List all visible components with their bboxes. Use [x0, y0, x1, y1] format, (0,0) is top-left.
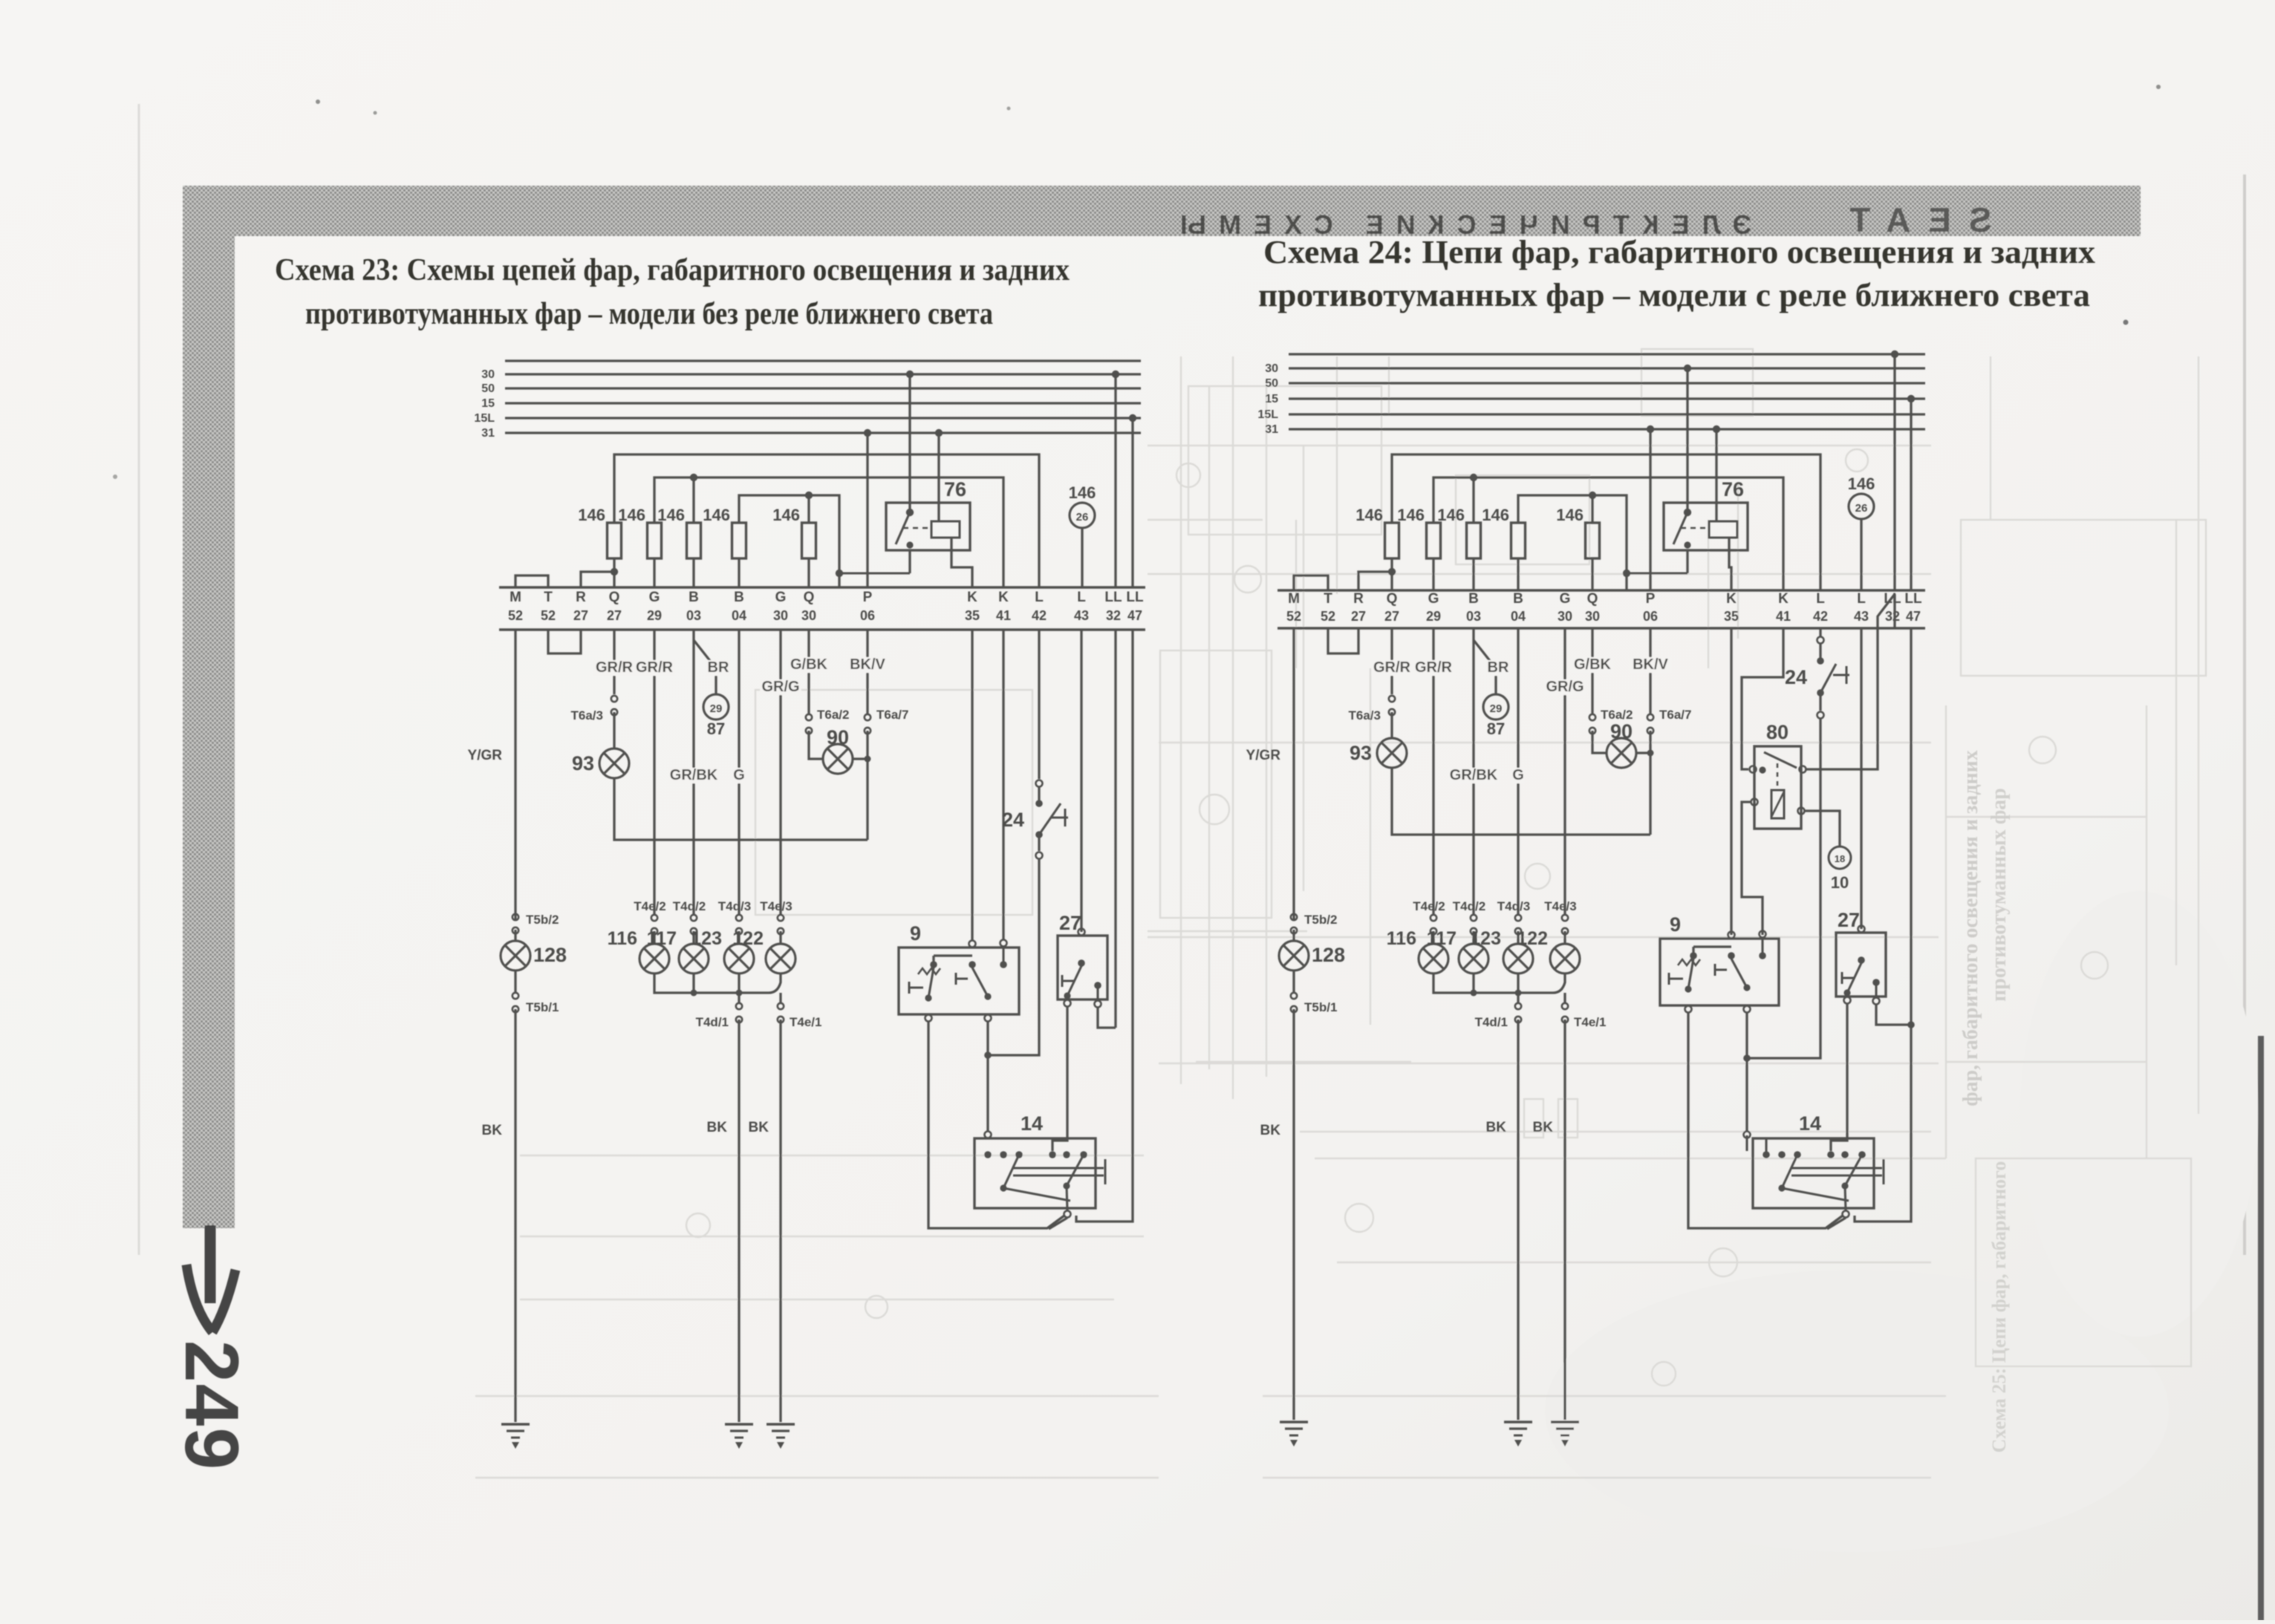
switch 24 — [1002, 780, 1068, 859]
lamp 93 — [572, 749, 629, 778]
svg-text:Схема 25: Цепи фар, габаритног: Схема 25: Цепи фар, габаритного — [1988, 1161, 2010, 1453]
svg-text:K: K — [998, 590, 1009, 605]
svg-text:123: 123 — [1470, 928, 1501, 949]
jumper R-Q — [1358, 568, 1396, 590]
svg-text:Q: Q — [1587, 591, 1598, 607]
wire GR/R (Q27) — [593, 630, 635, 694]
svg-text:T5b/2: T5b/2 — [1304, 913, 1337, 927]
wire G/BK (Q30) right — [1572, 628, 1613, 714]
connector T5b/1 — [512, 971, 559, 1014]
svg-text:GR/R: GR/R — [636, 659, 674, 676]
bus 30 — [481, 368, 1141, 381]
wire LL47 to bus — [1907, 395, 1915, 590]
svg-text:T4e/3: T4e/3 — [760, 899, 792, 913]
fuse 146 #2 — [1397, 506, 1440, 590]
svg-text:BR: BR — [708, 659, 729, 676]
lamp 128 — [501, 941, 567, 971]
connector T6a/2 right — [1589, 708, 1633, 753]
svg-text:K: K — [1778, 591, 1789, 607]
svg-text:146: 146 — [1355, 506, 1383, 524]
svg-text:146: 146 — [1437, 506, 1465, 524]
svg-text:T6a/2: T6a/2 — [817, 708, 849, 722]
ground (123 circuit) — [725, 1424, 753, 1449]
svg-text:35: 35 — [965, 608, 980, 623]
svg-text:18: 18 — [1835, 853, 1845, 864]
wire relay switched contact to bus 30 — [1684, 365, 1691, 512]
svg-text:42: 42 — [1813, 609, 1828, 624]
svg-text:B: B — [689, 590, 699, 605]
jumper R-Q — [581, 568, 618, 587]
switch 27 — [1058, 912, 1107, 1008]
svg-text:Схема 24: Цепи фар, габаритног: Схема 24: Цепи фар, габаритного освещени… — [1263, 234, 2095, 270]
svg-text:27: 27 — [573, 608, 588, 623]
wire G (B04) right — [1511, 628, 1525, 914]
wire unit 9 right out right — [1743, 1013, 1769, 1132]
lamp 116 right — [1387, 928, 1448, 974]
svg-text:BK/V: BK/V — [850, 656, 885, 673]
bus 15 — [1265, 393, 1925, 405]
svg-text:52: 52 — [541, 608, 556, 623]
wire L43 to switch 27 — [1080, 630, 1082, 932]
svg-text:G/BK: G/BK — [790, 656, 828, 673]
svg-text:T4d/1: T4d/1 — [696, 1015, 729, 1029]
svg-text:BK: BK — [1486, 1120, 1507, 1135]
svg-text:93: 93 — [1350, 742, 1372, 764]
wire GR/G (G30) — [760, 630, 801, 914]
svg-text:LL: LL — [1904, 591, 1922, 607]
svg-text:L: L — [1857, 591, 1866, 607]
wire GR/R (G29) — [634, 630, 675, 914]
wire lamp return bus right — [1433, 974, 1565, 997]
bus 15L — [474, 412, 1141, 425]
wire relay switched contact to bus 30 — [906, 371, 914, 512]
jumper T-R below bar — [1328, 628, 1358, 653]
wire relay coil feed from bus 31 — [1713, 425, 1720, 521]
fuse 146 #1 — [578, 506, 621, 587]
wire BK to ground (123) right — [1486, 1020, 1518, 1420]
connector T6a/2 — [806, 708, 850, 759]
svg-text:M: M — [510, 590, 521, 605]
jumper M-T — [515, 575, 548, 587]
fuse 146 #3 — [657, 506, 700, 587]
wire lamp 93 return right — [1392, 768, 1650, 835]
svg-text:L: L — [1035, 590, 1044, 605]
ground (122 circuit) — [767, 1424, 795, 1449]
svg-text:128: 128 — [1312, 944, 1345, 966]
svg-text:Q: Q — [804, 590, 815, 605]
svg-text:Q: Q — [609, 590, 620, 605]
svg-text:G: G — [1560, 591, 1571, 607]
svg-text:249: 249 — [169, 1340, 254, 1471]
wire fuse1 to L42 feed — [1392, 454, 1820, 590]
svg-text:04: 04 — [1511, 609, 1526, 624]
svg-text:15L: 15L — [474, 412, 495, 425]
svg-text:14: 14 — [1021, 1112, 1043, 1135]
lamp 90 — [823, 726, 853, 774]
svg-text:116: 116 — [608, 928, 637, 949]
svg-text:фар, габаритного освещения и з: фар, габаритного освещения и задних — [1959, 750, 1982, 1106]
wire relay 80 contact to LL32 — [1805, 594, 1895, 769]
svg-text:32: 32 — [1106, 608, 1121, 623]
wire K41 to switch unit 9 — [1002, 630, 1004, 939]
wire BK to ground (122) — [749, 1020, 781, 1422]
svg-text:146: 146 — [1556, 506, 1584, 524]
ground (122) right — [1551, 1422, 1579, 1447]
bus 31 — [1265, 423, 1925, 436]
svg-text:43: 43 — [1854, 609, 1869, 624]
connector T6a/7 — [853, 708, 908, 840]
lamp 116 — [608, 928, 669, 974]
connector T5b/2 right — [1291, 913, 1338, 941]
svg-text:B: B — [734, 590, 744, 605]
svg-text:26: 26 — [1076, 511, 1089, 524]
svg-text:M: M — [1288, 591, 1300, 607]
svg-text:06: 06 — [1643, 609, 1658, 624]
fuse 146 #2 — [618, 506, 661, 587]
bus 50 — [481, 382, 1141, 395]
wire switch 27 left out — [1052, 1007, 1067, 1151]
svg-text:T: T — [544, 590, 553, 605]
switch unit 9 — [899, 922, 1019, 1022]
bus feed — [505, 359, 1141, 362]
connector T4d/2 — [673, 899, 706, 934]
svg-text:BK: BK — [749, 1120, 769, 1135]
svg-text:31: 31 — [1265, 423, 1278, 436]
svg-text:B: B — [1513, 591, 1523, 607]
bus 15 — [481, 397, 1141, 410]
wire G/BK (Q30) — [788, 630, 830, 714]
svg-text:76: 76 — [944, 478, 966, 500]
svg-text:90: 90 — [1610, 720, 1633, 743]
svg-text:43: 43 — [1074, 608, 1089, 623]
indicator 146 (26) on L43 — [1069, 483, 1096, 587]
indicator 146 (26) on L43 — [1848, 475, 1875, 590]
svg-text:146: 146 — [618, 506, 645, 524]
svg-text:41: 41 — [1776, 609, 1791, 624]
svg-text:Схема 23: Схемы цепей фар, габ: Схема 23: Схемы цепей фар, габаритного о… — [275, 253, 1070, 287]
svg-text:P: P — [1646, 591, 1656, 607]
wire L43 to switch 27 right — [1860, 628, 1862, 929]
svg-text:GR/R: GR/R — [596, 659, 634, 676]
wire fuse2/fuse3 to K41 feed — [654, 474, 1003, 587]
wire BK to ground (122) right — [1533, 1020, 1565, 1420]
svg-text:35: 35 — [1724, 609, 1739, 624]
svg-text:146: 146 — [1848, 475, 1875, 493]
connector T5b/2 — [512, 913, 559, 941]
lamp 117 right — [1427, 928, 1488, 974]
svg-text:K: K — [967, 590, 977, 605]
wire LL47 down right — [1855, 628, 1915, 1222]
svg-text:T5b/2: T5b/2 — [526, 913, 559, 927]
ground (M circuit) — [501, 1424, 530, 1449]
wire lamp return bus — [654, 974, 781, 997]
wire LL32 to bus — [1112, 371, 1119, 587]
svg-text:9: 9 — [1670, 913, 1681, 936]
fuse 146 #5 — [772, 506, 816, 587]
svg-text:06: 06 — [860, 608, 875, 623]
svg-text:T6a/3: T6a/3 — [571, 708, 603, 723]
switch 27 right — [1836, 909, 1886, 1005]
ghost mirrored header text — [1168, 209, 1751, 240]
svg-text:BK: BK — [707, 1120, 728, 1135]
wire switch 27 right out to LL47 — [1876, 1005, 1911, 1025]
wire BK/V (P06) right — [1630, 628, 1671, 714]
wire K35 to switch unit 9 — [971, 630, 973, 941]
svg-text:GR/G: GR/G — [1546, 679, 1584, 695]
wire switch 27 right out to LL32 — [1098, 1008, 1116, 1028]
svg-text:29: 29 — [1490, 702, 1503, 715]
connector T4e/1 — [778, 993, 822, 1029]
wire K35 to switch unit 9 right — [1730, 628, 1732, 935]
wire LL47 down — [1076, 630, 1133, 1222]
svg-text:146: 146 — [1397, 506, 1425, 524]
svg-text:146: 146 — [1482, 506, 1509, 524]
svg-text:116: 116 — [1387, 928, 1416, 949]
ground (123) right — [1504, 1422, 1532, 1447]
wire LL47 to bus — [1129, 414, 1136, 587]
svg-text:B: B — [1468, 591, 1479, 607]
svg-text:30: 30 — [801, 608, 816, 623]
wire GR/G (G30) right — [1544, 628, 1586, 914]
wire relay 80 coil return to unit 9 — [1742, 802, 1763, 935]
connector T5b/1 right — [1291, 971, 1338, 1014]
ground (M circuit) right — [1280, 1422, 1308, 1447]
wire L42 lower — [988, 859, 1039, 1055]
svg-text:146: 146 — [703, 506, 730, 524]
svg-text:T4e/1: T4e/1 — [1574, 1015, 1606, 1029]
svg-text:41: 41 — [996, 608, 1011, 623]
svg-text:R: R — [576, 590, 586, 605]
svg-text:90: 90 — [827, 726, 849, 749]
fuse 146 #1 — [1355, 506, 1399, 590]
svg-text:L: L — [1816, 591, 1825, 607]
svg-text:T6a/7: T6a/7 — [1659, 708, 1691, 722]
svg-text:G: G — [1428, 591, 1439, 607]
svg-text:29: 29 — [710, 702, 723, 715]
connector T6a/3 right — [1349, 696, 1396, 738]
svg-text:27: 27 — [1384, 609, 1399, 624]
wire lamp 93 return — [614, 778, 868, 840]
svg-text:29: 29 — [647, 608, 662, 623]
wire K41 to relay 80 — [1742, 628, 1783, 769]
svg-text:GR/G: GR/G — [761, 679, 799, 695]
svg-text:противотуманных фар – модели с: противотуманных фар – модели с реле ближ… — [1258, 277, 2090, 313]
connector T4d/2 right — [1453, 899, 1485, 934]
relay 76 — [1664, 478, 1748, 550]
svg-text:122: 122 — [1517, 928, 1548, 949]
wire LL32 down right — [1893, 594, 1895, 628]
svg-text:42: 42 — [1032, 608, 1047, 623]
headlight unit 14 right — [1744, 1112, 1884, 1229]
wire L42 lower right — [1769, 719, 1820, 1058]
svg-text:GR/BK: GR/BK — [670, 767, 718, 783]
svg-text:31: 31 — [481, 427, 495, 440]
wire GR/R (Q27) right — [1371, 628, 1413, 694]
connector T4d/1 — [696, 993, 743, 1029]
bus feed — [1289, 353, 1925, 355]
svg-text:24: 24 — [1002, 809, 1024, 831]
svg-text:146: 146 — [772, 506, 800, 524]
wire Y/GR (M52) right — [1246, 628, 1294, 913]
connector bar — [1278, 590, 1925, 628]
svg-text:LL: LL — [1104, 590, 1122, 605]
connector T4e/2 — [634, 899, 665, 934]
svg-text:146: 146 — [578, 506, 605, 524]
svg-text:Y/GR: Y/GR — [1246, 748, 1281, 763]
fuse 146 #4 — [703, 506, 746, 587]
svg-text:G: G — [649, 590, 660, 605]
wire fuse1 to L42 feed — [614, 454, 1039, 587]
svg-text:52: 52 — [508, 608, 523, 623]
wire fuse4/fuse5 loop to relay contact — [739, 492, 910, 587]
svg-text:G: G — [775, 590, 787, 605]
svg-text:R: R — [1353, 591, 1364, 607]
wire BK/V (P06) — [847, 630, 888, 714]
svg-text:27: 27 — [1351, 609, 1366, 624]
svg-text:BK: BK — [482, 1123, 503, 1138]
svg-text:T4e/1: T4e/1 — [790, 1015, 821, 1029]
connector T4e/3 right — [1544, 899, 1576, 934]
wire BR branch right — [1474, 640, 1509, 694]
svg-text:BK: BK — [1533, 1120, 1554, 1135]
svg-text:GR/R: GR/R — [1373, 659, 1411, 676]
svg-text:146: 146 — [657, 506, 685, 524]
svg-text:9: 9 — [910, 922, 921, 945]
svg-text:T4d/1: T4d/1 — [1475, 1015, 1508, 1029]
svg-text:T4d/3: T4d/3 — [1497, 899, 1530, 913]
wire GR/BK (B03) — [668, 630, 719, 914]
svg-text:146: 146 — [1069, 483, 1096, 502]
wire fuse2/fuse3 to K41 feed — [1433, 474, 1783, 590]
svg-text:50: 50 — [1265, 377, 1278, 390]
svg-text:14: 14 — [1799, 1112, 1821, 1135]
wire GR/BK (B03) right — [1448, 628, 1499, 914]
svg-text:P: P — [863, 590, 873, 605]
connector T4e/3 — [760, 899, 792, 934]
svg-text:04: 04 — [732, 608, 746, 623]
svg-text:T4d/2: T4d/2 — [673, 899, 706, 913]
svg-text:80: 80 — [1766, 721, 1789, 743]
switch 24 right — [1785, 628, 1849, 719]
wire BK to ground (M) right — [1260, 1009, 1294, 1420]
wire relay coil feed from bus 31 — [935, 429, 943, 521]
svg-text:87: 87 — [1487, 720, 1505, 738]
wire BK to ground (123) — [707, 1020, 739, 1422]
headlight unit 14 — [974, 1112, 1105, 1229]
svg-text:93: 93 — [572, 752, 594, 775]
svg-text:47: 47 — [1127, 608, 1142, 623]
svg-text:G: G — [1512, 767, 1524, 783]
svg-text:T6a/3: T6a/3 — [1349, 708, 1381, 723]
svg-text:T4e/2: T4e/2 — [1413, 899, 1445, 913]
wire relay 80 coil to indicator 10 — [1805, 811, 1840, 847]
svg-text:T4d/3: T4d/3 — [718, 899, 751, 913]
wire fuse4/fuse5 loop to relay contact — [1518, 492, 1687, 590]
svg-text:03: 03 — [686, 608, 701, 623]
svg-text:Q: Q — [1387, 591, 1398, 607]
connector bar — [499, 587, 1145, 630]
svg-text:117: 117 — [1427, 928, 1457, 949]
svg-text:30: 30 — [773, 608, 788, 623]
svg-text:26: 26 — [1855, 502, 1868, 515]
svg-text:K: K — [1726, 591, 1737, 607]
svg-text:52: 52 — [1321, 609, 1335, 624]
svg-text:15: 15 — [481, 397, 495, 410]
wire BK to ground (M) — [482, 1009, 515, 1422]
connector T6a/3 — [571, 696, 618, 749]
connector T4e/1 right — [1562, 993, 1607, 1029]
bus 31 — [481, 427, 1141, 440]
svg-text:30: 30 — [481, 368, 495, 381]
lamp 128 right — [1279, 941, 1345, 971]
connector T4e/2 right — [1413, 899, 1445, 934]
svg-text:87: 87 — [707, 720, 725, 738]
svg-text:BR: BR — [1488, 659, 1509, 676]
svg-text:27: 27 — [1838, 909, 1860, 931]
svg-text:24: 24 — [1785, 666, 1807, 688]
svg-text:30: 30 — [1558, 609, 1572, 624]
lamp 90 right schematic — [1607, 720, 1636, 768]
connector T4d/3 — [718, 899, 751, 934]
bus 30 — [1265, 362, 1925, 375]
svg-text:T5b/1: T5b/1 — [1304, 1000, 1337, 1014]
svg-text:противотуманных фар – модели б: противотуманных фар – модели без реле бл… — [305, 297, 993, 331]
svg-text:LL: LL — [1126, 590, 1144, 605]
svg-text:30: 30 — [1265, 362, 1278, 375]
wire G (B04) — [732, 630, 746, 914]
lamp 122 right — [1517, 928, 1580, 974]
wire P to bus 31 — [1647, 425, 1654, 590]
svg-text:T: T — [1324, 591, 1332, 607]
svg-text:противотуманных фар: противотуманных фар — [1988, 788, 2011, 1002]
lamp 123 — [691, 928, 754, 974]
connector 29 (87) right — [1483, 694, 1508, 738]
fuse 146 #4 — [1482, 506, 1525, 590]
wire L42 upper — [1038, 630, 1040, 779]
svg-text:76: 76 — [1722, 478, 1744, 500]
svg-text:52: 52 — [1286, 609, 1301, 624]
svg-text:T4e/3: T4e/3 — [1544, 899, 1576, 913]
connector T6a/7 right — [1636, 708, 1691, 835]
relay 80 — [1750, 721, 1806, 829]
ghost bleed-through shapes — [475, 349, 2206, 1478]
svg-text:15: 15 — [1265, 393, 1278, 405]
wire unit 9 right out — [984, 1022, 992, 1132]
wire unit 9 left out right — [1688, 1013, 1843, 1228]
lamp 93 right — [1350, 738, 1407, 768]
svg-text:GR/BK: GR/BK — [1450, 767, 1498, 783]
wire unit 9 left out — [928, 1022, 1064, 1228]
wire GR/R (G29) right — [1413, 628, 1454, 914]
svg-text:50: 50 — [481, 382, 495, 395]
svg-text:47: 47 — [1906, 609, 1921, 624]
svg-text:GR/R: GR/R — [1415, 659, 1453, 676]
bus 15L — [1257, 408, 1925, 421]
wire Y/GR (M52) — [468, 630, 515, 913]
svg-text:122: 122 — [732, 928, 764, 949]
lamp 122 — [732, 928, 795, 974]
svg-text:29: 29 — [1426, 609, 1441, 624]
svg-text:30: 30 — [1585, 609, 1600, 624]
wire LL32 to bus — [1891, 350, 1898, 590]
svg-text:03: 03 — [1466, 609, 1481, 624]
svg-text:32: 32 — [1885, 609, 1900, 624]
wire switch 27 left out right — [1831, 1004, 1847, 1151]
svg-text:G/BK: G/BK — [1574, 656, 1612, 673]
svg-text:T6a/7: T6a/7 — [876, 708, 908, 722]
connector 29 (87) — [703, 694, 729, 738]
svg-text:BK/V: BK/V — [1633, 656, 1668, 673]
